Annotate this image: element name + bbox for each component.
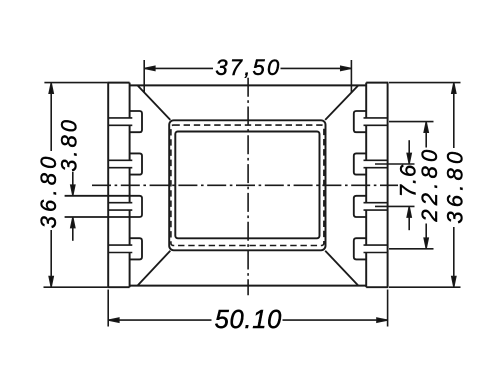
chamfer diagonal top-left <box>138 85 171 120</box>
right flange bar outline <box>366 83 388 288</box>
winding window inner edge <box>175 132 319 239</box>
right pin 1 slot lines <box>364 117 388 119</box>
dimension 50.10: arrowheads <box>108 318 119 322</box>
dimension 37.50: dimension line <box>144 67 213 69</box>
right flange bottom edge <box>366 286 388 288</box>
chamfer diagonal bottom-left <box>138 251 171 286</box>
left pin 4 slot lines <box>108 244 132 246</box>
left pin 2 slot lines <box>108 159 132 161</box>
dimension 22.80: arrowheads <box>424 122 428 133</box>
dimension 22.80: extension lines <box>389 121 434 123</box>
left pin tab 4 <box>130 238 142 259</box>
right pin 4 slot lines <box>364 244 388 246</box>
body bottom edge <box>130 285 367 287</box>
right flange left edge segments between pin slots <box>365 83 367 118</box>
left flange right edge segments between pin slots <box>129 83 131 118</box>
dimension 22.80: dimension line <box>425 122 427 148</box>
chamfer diagonal bottom-right <box>325 251 358 286</box>
svg-text:3.80: 3.80 <box>57 117 82 172</box>
chamfer diagonal top-right <box>325 85 358 120</box>
dimension 50.10: extension lines <box>107 290 109 327</box>
left pin 3 slot lines <box>108 202 132 204</box>
dimension 7.6: arrowheads <box>407 153 411 164</box>
left flange left edge <box>107 83 109 288</box>
dimension 36.80 left: extension lines <box>44 82 107 84</box>
dimension 36.80 right: arrowheads <box>452 83 456 94</box>
right pin tab 1 <box>354 111 366 132</box>
svg-text:22.80: 22.80 <box>417 146 442 223</box>
left pin tab 3 (edges extended left as 3.80 extension lines) <box>65 196 142 217</box>
right pin 2 slot lines <box>364 159 388 161</box>
svg-text:50.10: 50.10 <box>215 306 282 334</box>
svg-text:37,50: 37,50 <box>215 55 281 80</box>
dimension 36.80 left: arrowheads <box>49 83 53 94</box>
right pin tab 3 <box>354 196 366 217</box>
dimension 7.6: dimension line upper <box>408 140 410 164</box>
winding window hidden (dashed) edge <box>171 125 324 245</box>
winding window outer edge <box>169 120 325 250</box>
horizontal centerline <box>92 184 398 186</box>
right pin 3 slot lines <box>364 202 388 204</box>
dimension 36.80 right: extension lines <box>389 82 461 84</box>
svg-text:36.80: 36.80 <box>442 148 467 224</box>
dimension 50.10: dimension line <box>108 319 211 321</box>
left flange bar outline <box>107 83 129 288</box>
left flange bottom edge <box>107 286 129 288</box>
dimension 37.50: arrowheads <box>144 66 155 70</box>
dimension 3.80: dimension line upper <box>72 172 74 196</box>
dimension 3.80: arrowheads <box>71 185 75 196</box>
right flange right edge <box>387 83 389 288</box>
left pin tab 2 <box>130 153 142 174</box>
left flange top edge <box>107 82 129 84</box>
dimension 7.6: extension lines <box>375 163 415 165</box>
dimension 37.50: extension lines <box>143 60 145 93</box>
left pin 1 slot lines <box>108 117 132 119</box>
dimension 7.6: dimension line lower <box>408 206 410 230</box>
right pin tab 4 <box>354 238 366 259</box>
vertical centerline <box>247 78 249 296</box>
right flange top edge <box>366 82 388 84</box>
dimension 36.80 right: dimension line <box>453 83 455 148</box>
left pin tab 1 <box>130 111 142 132</box>
dimension 3.80: dimension line lower <box>72 217 74 241</box>
dimension 36.80 left: dimension line <box>50 83 52 151</box>
right pin tab 2 <box>354 153 366 174</box>
body top edge <box>130 84 367 86</box>
